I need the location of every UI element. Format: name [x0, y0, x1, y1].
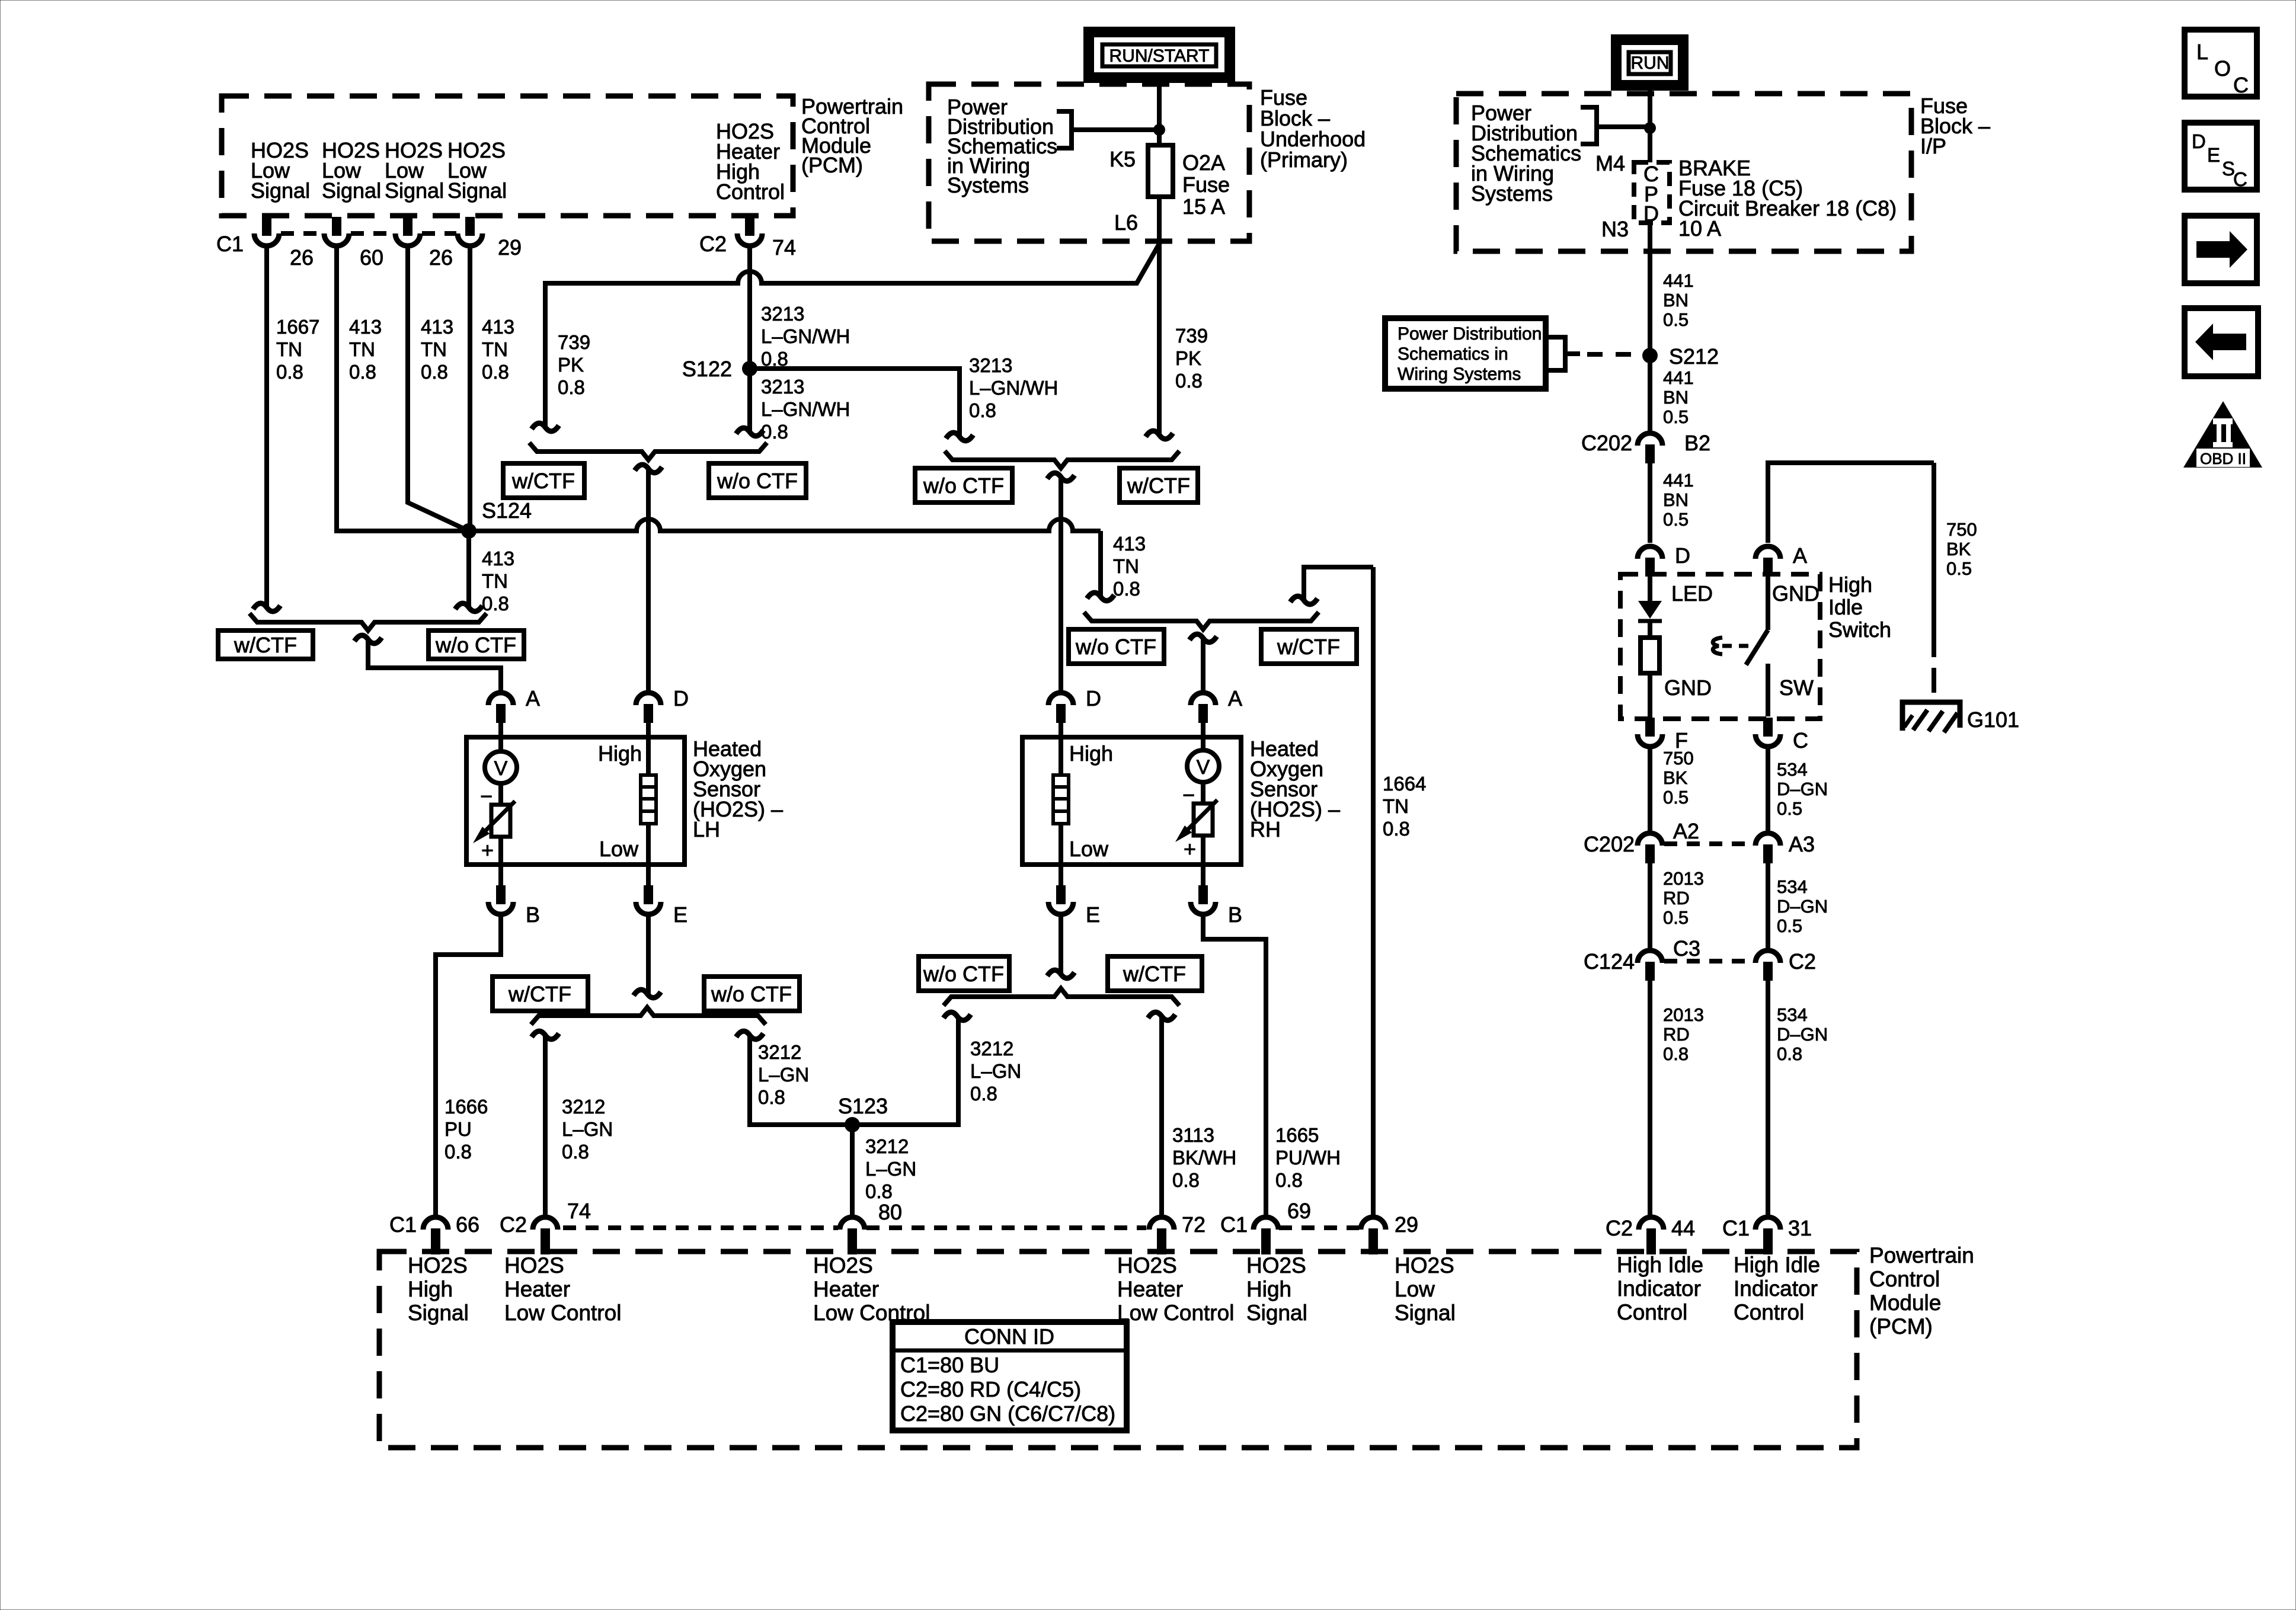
svg-text:S122: S122: [682, 357, 732, 381]
svg-text:O: O: [2214, 56, 2231, 81]
junction dot: [1153, 124, 1165, 136]
connector C202 A2: [1638, 833, 1662, 846]
svg-text:HO2SHeaterHighControl: HO2SHeaterHighControl: [716, 119, 785, 204]
svg-text:2013RD0.5: 2013RD0.5: [1663, 868, 1704, 928]
junction dot: [1644, 122, 1656, 134]
connector C: [1763, 718, 1773, 737]
svg-text:413TN0.8: 413TN0.8: [482, 548, 514, 614]
Fuse Block Underhood dashed box: [929, 84, 1249, 241]
break left output: [944, 1012, 971, 1020]
connector A3: [1755, 833, 1780, 846]
svg-text:1665PU/WH0.8: 1665PU/WH0.8: [1275, 1124, 1341, 1191]
connector dashed line C1: [281, 231, 324, 236]
brace merge (LH heater high select): [529, 443, 767, 460]
svg-text:w/CTF: w/CTF: [234, 633, 297, 657]
connector E (HO2S LH): [646, 865, 651, 885]
Power Distribution Schematics box (solid): [1385, 318, 1546, 389]
svg-text:S124: S124: [482, 498, 532, 523]
brace merge (RH low signal select): [1084, 612, 1319, 629]
wire 1665 PU/WH from RH B to pin 69: [1203, 914, 1266, 1215]
connector C1 pin 26 (second): [403, 217, 412, 236]
svg-text:HeatedOxygenSensor(HO2S) –LH: HeatedOxygenSensor(HO2S) –LH: [693, 737, 783, 841]
svg-text:w/o CTF: w/o CTF: [435, 633, 516, 657]
wire 413 TN from C1-29 into S124: [468, 246, 472, 531]
connector C1 pin 29: [465, 217, 475, 236]
wire 1664 TN down to pin 29: [1371, 567, 1376, 1215]
bracket symbol (I/P): [1581, 107, 1597, 144]
break 3213 right branch: [946, 433, 973, 441]
option box w/CTF: [218, 630, 313, 659]
svg-text:HO2SLowSignal: HO2SLowSignal: [1395, 1253, 1456, 1325]
svg-text:750BK0.5: 750BK0.5: [1946, 519, 1977, 579]
svg-text:3113BK/WH0.8: 3113BK/WH0.8: [1172, 1124, 1236, 1191]
variable resistor with arrow: [491, 805, 510, 837]
option box w/CTF: [503, 463, 584, 498]
svg-text:D: D: [1675, 543, 1690, 568]
connector C1 pin 69: [1253, 1217, 1278, 1230]
svg-text:G101: G101: [1967, 708, 2019, 732]
svg-text:80: 80: [878, 1200, 902, 1224]
connector C124 C3: [1638, 950, 1662, 963]
heater element (LH): [646, 737, 651, 775]
break right output: [1148, 1012, 1175, 1020]
svg-text:w/o CTF: w/o CTF: [711, 982, 792, 1006]
connector C2 (right): [1755, 950, 1780, 963]
wire L6 down (739 PK): [1157, 197, 1162, 436]
svg-text:B: B: [526, 902, 540, 927]
svg-text:413TN0.8: 413TN0.8: [421, 316, 453, 383]
svg-text:2013RD0.8: 2013RD0.8: [1663, 1004, 1704, 1064]
svg-text:C3: C3: [1673, 936, 1700, 961]
svg-text:C2: C2: [1789, 949, 1816, 974]
wire 534 D-GN 0.5 (2): [1766, 863, 1770, 948]
connector E (HO2S RH): [1059, 865, 1063, 885]
connector A (HO2S RH): [1191, 693, 1216, 705]
HO2S RH sensor box: [1022, 737, 1241, 865]
svg-text:C2: C2: [699, 232, 727, 256]
wire 3213 from C2-74 down to S122: [747, 246, 752, 369]
svg-text:413TN0.8: 413TN0.8: [482, 316, 514, 383]
OBD II icon: [2183, 401, 2262, 468]
svg-text:31: 31: [1788, 1216, 1812, 1240]
wire 534 D-GN 0.8 to pin 31: [1766, 981, 1770, 1215]
connector F: [1645, 718, 1655, 737]
svg-text:w/o CTF: w/o CTF: [923, 962, 1004, 986]
svg-text:HO2SHighSignal: HO2SHighSignal: [1246, 1253, 1307, 1325]
option box w/CTF: [1108, 956, 1202, 991]
option box w/o CTF: [709, 463, 806, 498]
svg-text:C: C: [2233, 168, 2247, 190]
wire 2013 RD 0.5: [1648, 863, 1652, 948]
svg-text:FuseBlock –I/P: FuseBlock –I/P: [1920, 94, 1990, 158]
break below brace tip: [1047, 473, 1075, 481]
right arrow icon: [2185, 216, 2257, 283]
break right branch: [1087, 593, 1114, 601]
connector A (HO2S LH): [488, 693, 513, 705]
svg-text:C1=80 BUC2=80 RD (C4/C5)C2=80: C1=80 BUC2=80 RD (C4/C5)C2=80 GN (C6/C7/…: [900, 1353, 1115, 1426]
svg-text:C202: C202: [1584, 832, 1635, 856]
svg-text:w/CTF: w/CTF: [1277, 635, 1340, 659]
connector C202 B2: [1638, 433, 1662, 446]
svg-text:739PK0.8: 739PK0.8: [1175, 325, 1208, 392]
svg-text:PowerDistributionSchematicsin: PowerDistributionSchematicsin WiringSyst…: [1471, 101, 1581, 206]
brace split (LH heater low select): [531, 1007, 766, 1025]
connector C1 pin 26: [262, 217, 271, 236]
svg-text:3213L–GN/WH0.8: 3213L–GN/WH0.8: [761, 376, 850, 443]
svg-text:OBD II: OBD II: [2200, 450, 2246, 468]
svg-text:534D–GN0.5: 534D–GN0.5: [1777, 876, 1828, 936]
svg-text:HO2SLowSignal: HO2SLowSignal: [322, 138, 381, 203]
svg-text:D: D: [1643, 201, 1659, 226]
svg-text:441BN0.5: 441BN0.5: [1663, 270, 1694, 330]
svg-text:D: D: [2192, 130, 2206, 152]
connector pin 72: [1149, 1217, 1174, 1230]
resistor (LED leg): [1641, 638, 1659, 673]
svg-text:69: 69: [1287, 1199, 1311, 1223]
wire 413 TN from C1-60 to S124 horizontal: [337, 246, 469, 531]
S124 wire right branch turns down: [1098, 531, 1103, 597]
svg-text:1666PU0.8: 1666PU0.8: [445, 1096, 488, 1163]
connector A (switch): [1755, 546, 1780, 559]
S122 wire down: [747, 369, 752, 433]
option box w/o CTF: [428, 630, 524, 659]
svg-text:60: 60: [360, 245, 383, 270]
connector C2 pin 74: [745, 217, 754, 236]
wire brace output to LH A: [368, 640, 501, 692]
switch blade: [1766, 577, 1770, 630]
svg-text:C124: C124: [1584, 949, 1635, 974]
svg-text:O2AFuse15 A: O2AFuse15 A: [1182, 151, 1230, 219]
svg-text:B2: B2: [1684, 431, 1710, 455]
svg-text:+: +: [481, 838, 494, 862]
RUN/START box: [1089, 32, 1230, 78]
svg-text:RUN: RUN: [1631, 53, 1670, 73]
svg-text:C1: C1: [216, 232, 244, 256]
svg-text:w/CTF: w/CTF: [511, 469, 575, 493]
svg-text:HO2SHeaterLow Control: HO2SHeaterLow Control: [504, 1253, 621, 1325]
voltmeter V (RH): [1201, 737, 1205, 750]
svg-text:L: L: [2196, 40, 2208, 64]
connector C2 pin 44: [1639, 1217, 1664, 1230]
svg-text:74: 74: [772, 235, 796, 260]
svg-text:V: V: [494, 757, 508, 780]
wire 1666 PU from LH B to pin 66: [436, 914, 501, 1215]
svg-text:HO2SHeaterLow Control: HO2SHeaterLow Control: [813, 1253, 930, 1325]
svg-text:C: C: [1793, 728, 1808, 753]
svg-text:S212: S212: [1669, 344, 1719, 369]
wire 441 BN below fuse block: [1648, 223, 1652, 431]
wire brace output down to LH D: [646, 469, 651, 692]
svg-text:L6: L6: [1114, 210, 1138, 235]
svg-text:E: E: [2207, 144, 2220, 166]
wire 739 PK horizontal from fuse block with hop over C2 wire: [545, 242, 1160, 428]
G101 ground leg: [1932, 463, 1936, 657]
svg-text:750BK0.5: 750BK0.5: [1663, 748, 1694, 808]
svg-text:HO2SLowSignal: HO2SLowSignal: [385, 138, 444, 203]
svg-text:GND: GND: [1664, 676, 1712, 700]
svg-text:PowerDistributionSchematicsin: PowerDistributionSchematicsin WiringSyst…: [947, 95, 1057, 197]
svg-text:72: 72: [1182, 1212, 1205, 1237]
option box w/o CTF: [915, 468, 1012, 502]
break on 739 PK right: [1146, 431, 1173, 439]
wire 750 BK F to C202-A2: [1648, 747, 1652, 831]
LED symbol: [1648, 577, 1652, 601]
wire 2013 RD 0.8 to pin 44: [1648, 981, 1652, 1215]
connector C2 pin 74: [533, 1217, 558, 1230]
brace merge (RH heater high select): [945, 451, 1179, 468]
CONN ID table: [893, 1322, 1127, 1430]
wire 3212 to pin 74: [543, 1036, 548, 1215]
svg-text:534D–GN0.5: 534D–GN0.5: [1777, 759, 1828, 819]
svg-text:A3: A3: [1789, 832, 1815, 856]
break below S124: [455, 603, 482, 612]
connector C1 pin 60: [332, 217, 341, 236]
svg-text:High: High: [1069, 741, 1113, 766]
connector dashed line C202: [1664, 841, 1753, 846]
svg-text:D: D: [673, 686, 689, 710]
svg-text:Low: Low: [1069, 837, 1109, 861]
svg-text:BRAKEFuse 18 (C5)Circuit Break: BRAKEFuse 18 (C5)Circuit Breaker 18 (C8)…: [1678, 156, 1897, 241]
svg-text:3212L–GN0.8: 3212L–GN0.8: [562, 1096, 613, 1163]
svg-text:1667TN0.8: 1667TN0.8: [276, 316, 319, 383]
svg-text:739PK0.8: 739PK0.8: [558, 331, 590, 398]
w/CTF right input jog from 1664 wire: [1304, 567, 1373, 601]
break below RH E: [1047, 970, 1075, 978]
svg-text:3212L–GN0.8: 3212L–GN0.8: [970, 1038, 1021, 1105]
splice S124: [461, 523, 477, 539]
splice S122: [742, 361, 757, 376]
svg-text:High IdleIndicatorControl: High IdleIndicatorControl: [1617, 1253, 1703, 1324]
svg-text:534D–GN0.8: 534D–GN0.8: [1777, 1004, 1828, 1064]
S123 wire down to pin 80: [850, 1125, 855, 1215]
svg-text:M4: M4: [1595, 151, 1625, 175]
wire from RUN/START down: [1157, 78, 1162, 130]
svg-text:S123: S123: [838, 1094, 888, 1118]
svg-text:w/CTF: w/CTF: [1127, 473, 1190, 498]
connector D (HO2S LH): [636, 693, 661, 705]
svg-text:w/o CTF: w/o CTF: [1075, 635, 1156, 659]
left arrow icon: [2185, 308, 2258, 376]
fuse O2A 15A: [1157, 130, 1162, 145]
option box w/CTF: [1120, 468, 1198, 502]
S123 branch right up to brace: [852, 1017, 958, 1125]
brace merge (LH low signal select): [250, 613, 487, 630]
connector D (HO2S RH): [1048, 693, 1073, 705]
connector B (HO2S LH): [498, 865, 503, 885]
HO2S LH sensor box: [466, 737, 685, 865]
switch actuator dashes and hook: [1722, 644, 1750, 648]
wire brace output down to RH D: [1059, 478, 1063, 692]
connector B (HO2S RH): [1201, 865, 1205, 885]
svg-text:A: A: [1228, 686, 1242, 710]
Fuse Block I/P dashed box: [1456, 94, 1911, 251]
svg-text:1664TN0.8: 1664TN0.8: [1383, 773, 1426, 840]
svg-text:HeatedOxygenSensor(HO2S) –RH: HeatedOxygenSensor(HO2S) –RH: [1250, 737, 1340, 841]
break left output: [532, 1031, 559, 1039]
svg-text:C: C: [2233, 73, 2249, 97]
RUN box: [1616, 40, 1683, 85]
svg-text:LED: LED: [1671, 581, 1713, 606]
svg-text:V: V: [1197, 756, 1210, 779]
wire 1667 TN from C1-26: [264, 246, 269, 608]
connector C1 pin 66: [423, 1217, 448, 1230]
CPD fuse/breaker dashed box: [1634, 162, 1670, 223]
svg-text:HO2SHeaterLow Control: HO2SHeaterLow Control: [1117, 1253, 1234, 1325]
option box w/o CTF: [919, 956, 1009, 991]
svg-text:w/o CTF: w/o CTF: [923, 473, 1004, 498]
svg-text:44: 44: [1671, 1216, 1695, 1240]
svg-text:A2: A2: [1673, 819, 1699, 843]
svg-text:413TN0.8: 413TN0.8: [1113, 533, 1146, 600]
svg-text:GND: GND: [1772, 581, 1819, 606]
svg-text:D: D: [1086, 686, 1101, 710]
option box w/CTF: [493, 977, 588, 1011]
svg-text:3212L–GN0.8: 3212L–GN0.8: [865, 1135, 916, 1202]
wire brace output to RH A: [1201, 639, 1205, 692]
svg-text:C202: C202: [1581, 431, 1632, 455]
break right output: [736, 1031, 763, 1039]
svg-text:3213L–GN/WH0.8: 3213L–GN/WH0.8: [969, 354, 1058, 421]
svg-text:+: +: [1184, 837, 1196, 861]
wire RUN down: [1648, 85, 1652, 162]
svg-text:PowertrainControlModule(PCM): PowertrainControlModule(PCM): [801, 94, 903, 177]
svg-text:74: 74: [567, 1199, 591, 1223]
variable resistor with arrow (RH): [1194, 804, 1213, 836]
break below S122: [736, 428, 763, 436]
svg-text:E: E: [673, 902, 687, 927]
connector D (switch): [1638, 546, 1662, 559]
svg-text:C1: C1: [1722, 1216, 1750, 1240]
svg-text:CONN ID: CONN ID: [964, 1324, 1054, 1349]
PCM (top) dashed box: [222, 96, 793, 216]
brace split (RH heater low select): [944, 988, 1179, 1006]
wire 534 D-GN C to A3: [1766, 747, 1770, 831]
svg-text:C2: C2: [500, 1212, 527, 1237]
wire from LH E down: [646, 914, 651, 994]
LOC icon: [2185, 30, 2257, 97]
svg-text:High IdleIndicatorControl: High IdleIndicatorControl: [1734, 1253, 1820, 1324]
connector dashed line C124: [1664, 959, 1753, 964]
wire A up and over to G101 leg: [1768, 463, 1934, 543]
connector C1 pin 31: [1755, 1217, 1780, 1230]
svg-text:29: 29: [498, 235, 522, 260]
svg-text:PowertrainControlModule(PCM): PowertrainControlModule(PCM): [1869, 1243, 1974, 1339]
svg-text:N3: N3: [1601, 217, 1629, 241]
bracket symbol: [1057, 111, 1072, 148]
svg-text:K5: K5: [1109, 147, 1136, 171]
break below LH E: [634, 990, 661, 998]
svg-text:FuseBlock –Underhood(Primary): FuseBlock –Underhood(Primary): [1260, 85, 1366, 172]
S122 branch right: [750, 369, 960, 437]
svg-text:HighIdleSwitch: HighIdleSwitch: [1828, 572, 1891, 642]
splice S123: [845, 1117, 860, 1132]
option box w/o CTF: [1069, 629, 1164, 664]
wire 413 TN from C1-26b diagonal into S124: [408, 246, 469, 531]
svg-text:3213L–GN/WH0.8: 3213L–GN/WH0.8: [761, 303, 850, 370]
svg-text:26: 26: [429, 245, 453, 270]
splice S212: [1642, 348, 1658, 363]
svg-text:26: 26: [290, 245, 314, 270]
svg-text:3212L–GN0.8: 3212L–GN0.8: [758, 1041, 809, 1108]
heater element (RH): [1059, 737, 1063, 775]
svg-text:441BN0.5: 441BN0.5: [1663, 470, 1694, 530]
connector pin 29: [1361, 1217, 1386, 1230]
ground symbol G101: [1902, 702, 1960, 731]
break below brace tip: [635, 465, 662, 473]
S124 horizontal wire with hops over LH-D and RH-D wires: [469, 519, 1101, 531]
svg-text:w/o CTF: w/o CTF: [717, 469, 798, 493]
svg-text:66: 66: [456, 1212, 479, 1237]
DESC icon: [2185, 123, 2257, 190]
svg-text:HO2SLowSignal: HO2SLowSignal: [251, 138, 310, 203]
svg-text:C2: C2: [1606, 1216, 1633, 1240]
wire 3212 to S123: [750, 1036, 852, 1125]
connector dashed line bottom: [563, 1225, 838, 1230]
svg-text:E: E: [1086, 902, 1100, 927]
break on wire 1667: [253, 603, 280, 612]
svg-text:C1: C1: [389, 1212, 417, 1237]
voltmeter V: [498, 737, 503, 751]
svg-text:B: B: [1228, 902, 1242, 927]
svg-text:413TN0.8: 413TN0.8: [349, 316, 382, 383]
option box w/o CTF: [704, 977, 800, 1011]
S124 output wire down: [466, 531, 471, 608]
svg-text:w/CTF: w/CTF: [508, 982, 571, 1006]
svg-text:C1: C1: [1220, 1212, 1248, 1237]
wire from RH E down: [1059, 914, 1063, 975]
wire 3113 to pin 72: [1159, 1017, 1164, 1215]
svg-text:HO2SLowSignal: HO2SLowSignal: [447, 138, 507, 203]
option box w/CTF: [1261, 629, 1357, 664]
connector pin 80: [840, 1217, 865, 1230]
svg-text:HO2SHighSignal: HO2SHighSignal: [408, 1253, 469, 1325]
svg-text:w/CTF: w/CTF: [1123, 962, 1186, 986]
svg-text:29: 29: [1395, 1212, 1418, 1237]
break on 739 PK left: [532, 423, 559, 431]
svg-text:Low: Low: [599, 837, 639, 861]
svg-text:Power DistributionSchematics i: Power DistributionSchematics inWiring Sy…: [1398, 324, 1542, 384]
svg-text:RUN/START: RUN/START: [1109, 46, 1210, 66]
PCM (bottom) dashed box: [379, 1251, 1857, 1448]
svg-text:SW: SW: [1779, 676, 1814, 700]
High Idle Switch dashed box: [1620, 574, 1820, 719]
wire 441 BN to switch D: [1648, 463, 1652, 543]
svg-text:High: High: [598, 741, 642, 766]
bracket to S212: [1546, 337, 1565, 370]
svg-text:A: A: [526, 686, 540, 710]
svg-text:441BN0.5: 441BN0.5: [1663, 367, 1694, 427]
svg-text:A: A: [1793, 543, 1807, 568]
